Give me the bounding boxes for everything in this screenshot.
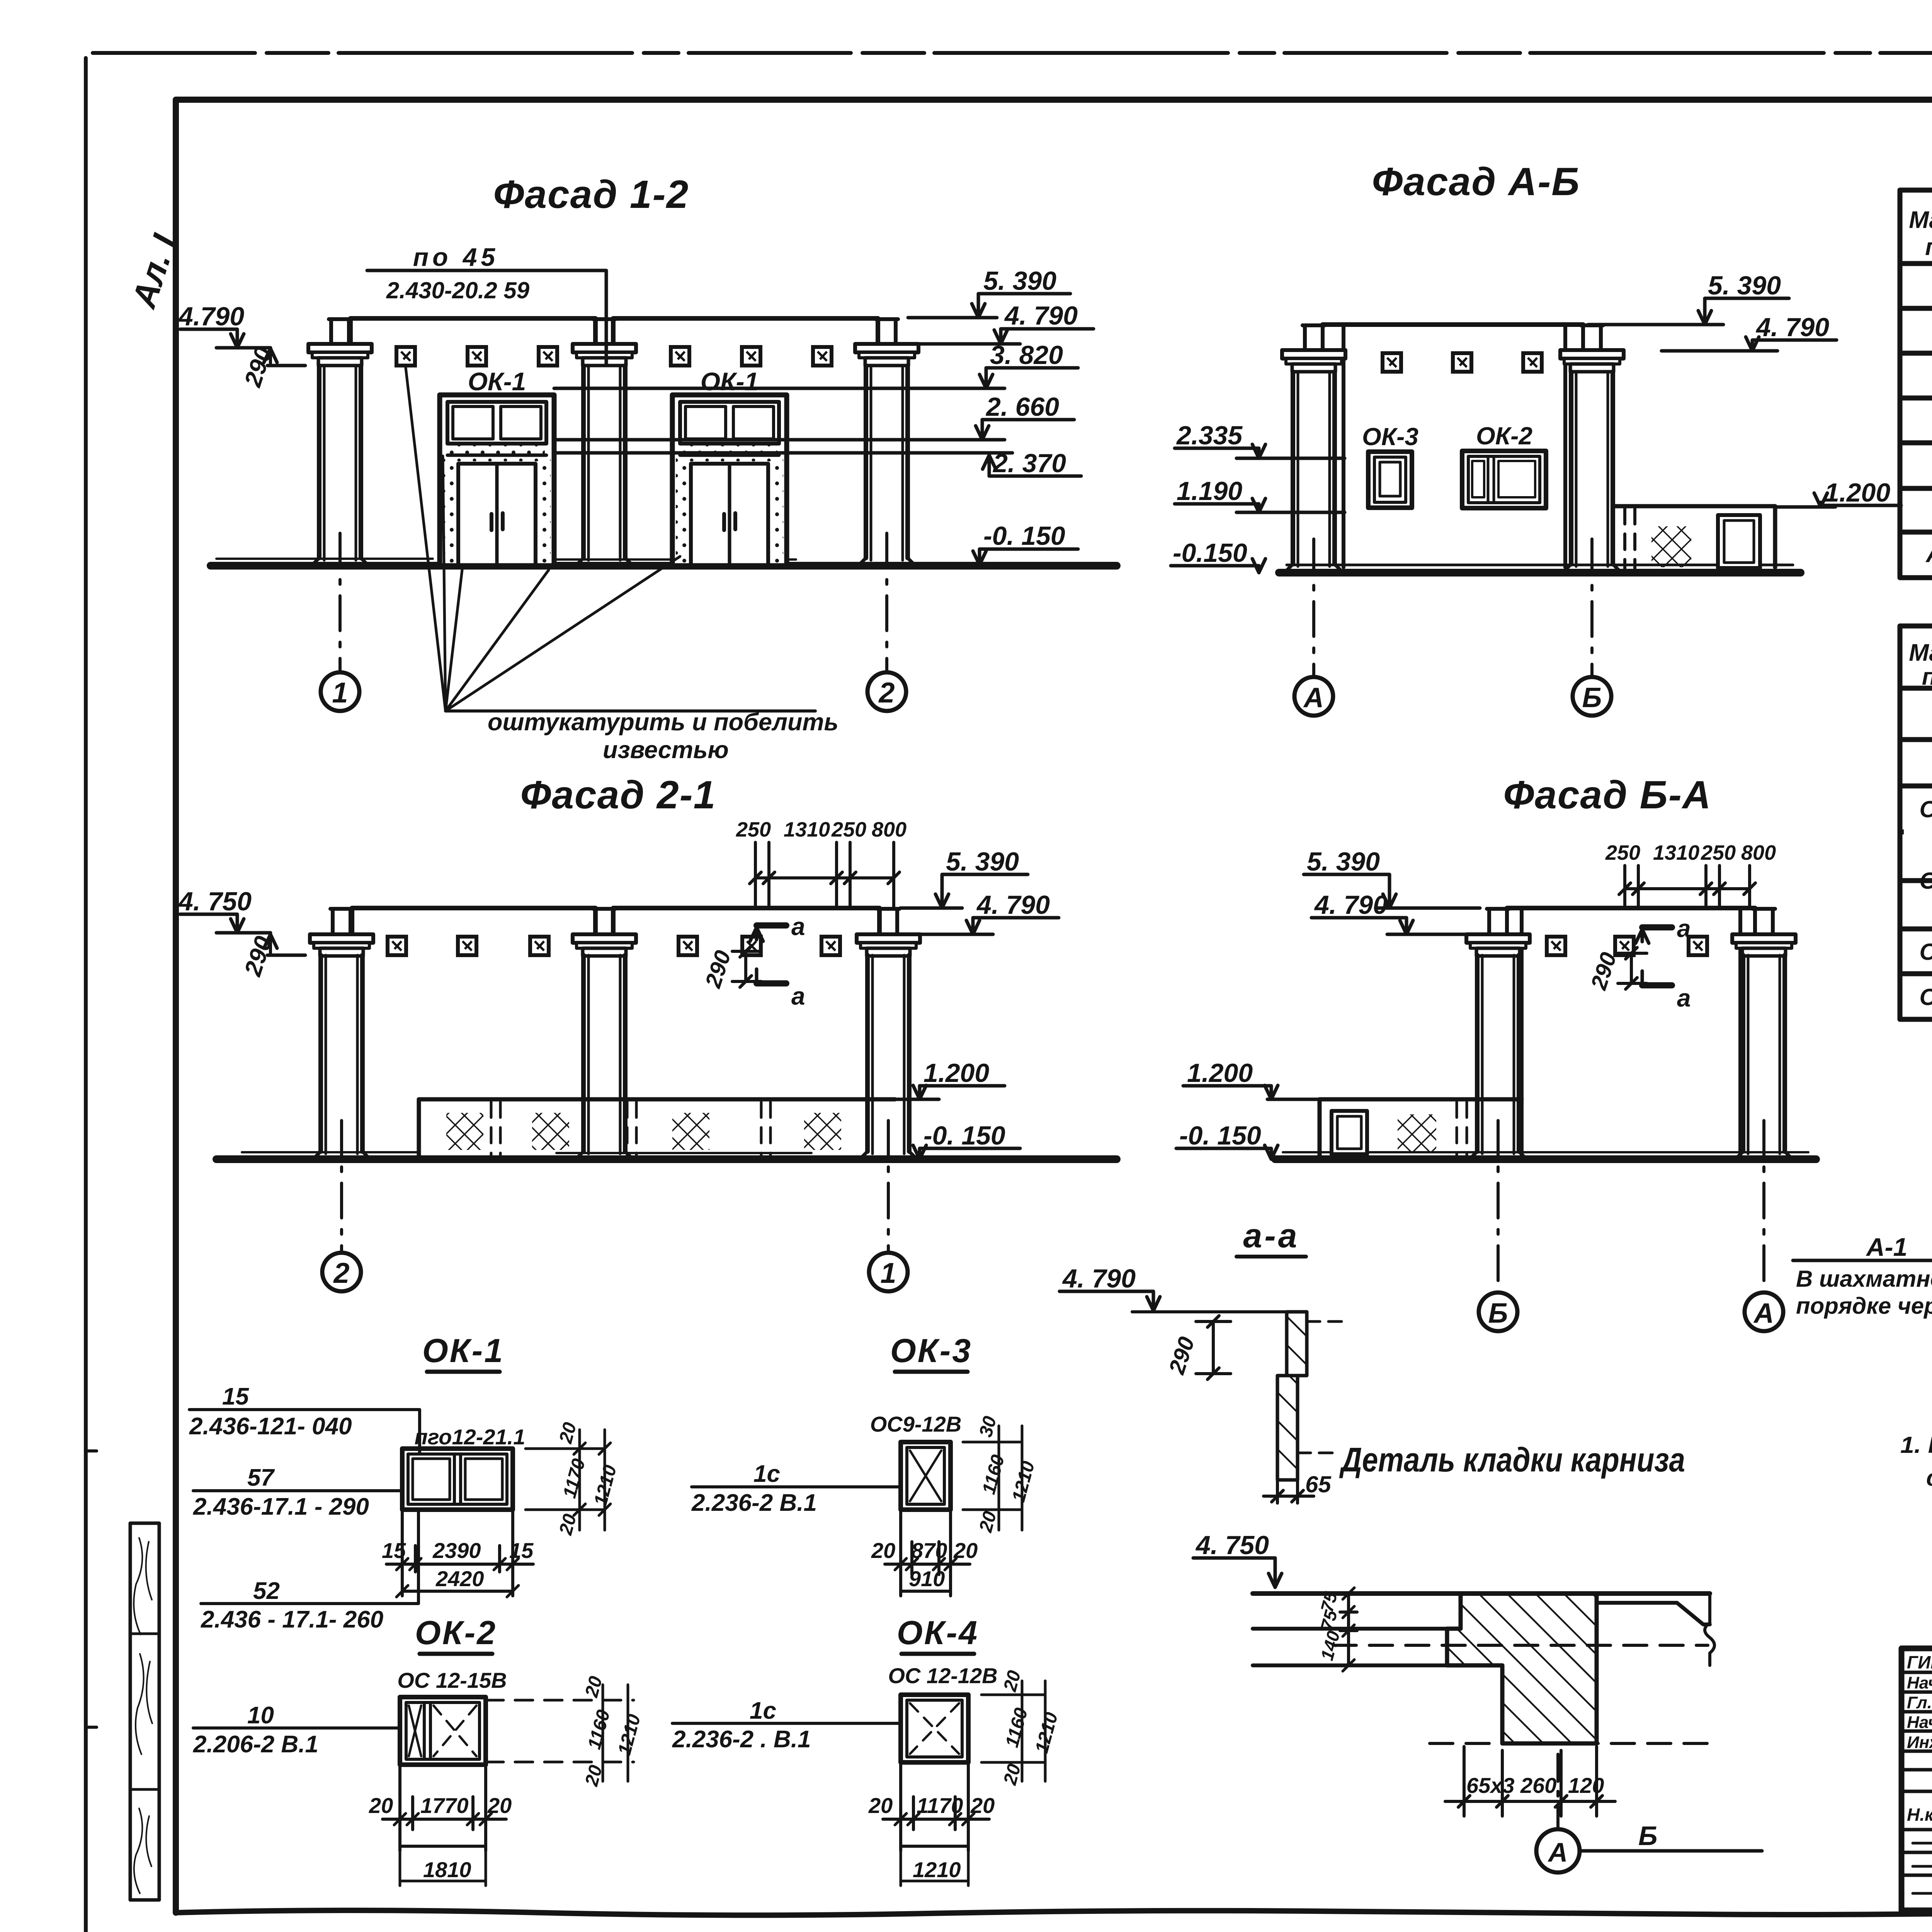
svg-text:Начотд: Начотд (1907, 1673, 1932, 1692)
svg-text:4. 790: 4. 790 (1314, 890, 1388, 920)
svg-text:ОС9-12В: ОС9-12В (870, 1412, 962, 1436)
svg-text:250: 250 (1701, 841, 1736, 864)
OK-2 right dashed leaders (486, 1700, 634, 1762)
290 dim at capital (267, 364, 305, 367)
svg-text:2.236-2 . В.1: 2.236-2 . В.1 (672, 1726, 811, 1753)
grilles (388, 937, 406, 955)
hatched masonry (1447, 1594, 1597, 1743)
svg-text:1170: 1170 (917, 1793, 963, 1818)
svg-text:4. 790: 4. 790 (1755, 313, 1829, 342)
svg-text:ОК-1: ОК-1 (1920, 796, 1932, 822)
svg-text:ОК-2: ОК-2 (415, 1614, 497, 1651)
parapet wall top (350, 318, 878, 344)
svg-text:5. 390: 5. 390 (946, 847, 1019, 876)
svg-text:800: 800 (872, 818, 906, 841)
svg-text:20: 20 (871, 1538, 895, 1563)
svg-text:15: 15 (222, 1383, 249, 1410)
grilles (1547, 937, 1565, 955)
svg-text:Инж.бл: Инж.бл (1907, 1733, 1932, 1752)
svg-text:ОС 12-12В: ОС 12-12В (888, 1663, 997, 1688)
svg-text:-0. 150: -0. 150 (983, 521, 1065, 551)
svg-text:10: 10 (247, 1702, 274, 1729)
svg-text:1770: 1770 (420, 1793, 469, 1818)
cornice profile lines (1253, 1629, 1502, 1665)
OK-3 right dims rotated (963, 1442, 1020, 1510)
svg-text:а: а (1677, 984, 1691, 1012)
svg-text:В шахматном: В шахматном (1796, 1266, 1932, 1292)
pilaster axis 1 (308, 319, 372, 564)
svg-text:поз.: поз. (1922, 663, 1932, 690)
svg-text:ОК-1: ОК-1 (468, 367, 526, 396)
ground line (1279, 569, 1801, 577)
right annex wall (1615, 506, 1775, 567)
svg-text:5. 390: 5. 390 (983, 266, 1056, 296)
section a flags (1642, 924, 1672, 930)
svg-text:910: 910 (909, 1566, 945, 1591)
leader fan to note (406, 368, 680, 711)
svg-text:15: 15 (509, 1538, 534, 1563)
svg-text:-0.150: -0.150 (1173, 538, 1247, 568)
door unit OK-1 (right) (672, 367, 787, 566)
svg-text:-0. 150: -0. 150 (923, 1121, 1005, 1150)
svg-text:ОК-1: ОК-1 (701, 367, 759, 396)
pilaster axis 2 (855, 319, 918, 564)
svg-text:250: 250 (1605, 841, 1640, 864)
svg-text:65: 65 (1305, 1471, 1332, 1497)
svg-text:2.335: 2.335 (1176, 421, 1243, 450)
svg-text:1: 1 (880, 1257, 896, 1289)
svg-text:2.436 - 17.1- 260: 2.436 - 17.1- 260 (201, 1606, 383, 1633)
wall corner edges (1522, 908, 1740, 1155)
svg-text:870: 870 (911, 1538, 947, 1563)
svg-text:Деталь кладки карниза: Деталь кладки карниза (1339, 1440, 1685, 1479)
svg-text:2.236-2 В.1: 2.236-2 В.1 (691, 1490, 817, 1516)
svg-text:20: 20 (487, 1793, 512, 1818)
svg-text:5. 390: 5. 390 (1307, 847, 1380, 876)
svg-text:ОК-3: ОК-3 (890, 1332, 972, 1369)
svg-text:Фасад 2-1: Фасад 2-1 (520, 773, 716, 817)
pilaster axis A (1282, 325, 1345, 570)
svg-text:по 45: по 45 (413, 243, 499, 271)
svg-text:20: 20 (970, 1793, 995, 1818)
svg-text:2.430-20.2 59: 2.430-20.2 59 (386, 277, 530, 303)
svg-text:1.200: 1.200 (1825, 478, 1890, 507)
svg-text:известью: известью (603, 736, 729, 764)
wall strip upper (1287, 1312, 1307, 1376)
svg-text:А-1: А-1 (1866, 1233, 1907, 1261)
svg-text:250: 250 (736, 818, 771, 841)
svg-text:А: А (1548, 1837, 1568, 1867)
roof slab right profile (1597, 1603, 1710, 1624)
svg-text:Гл.арх.: Гл.арх. (1907, 1693, 1932, 1712)
svg-text:ОК-1: ОК-1 (422, 1332, 504, 1369)
svg-text:1с: 1с (753, 1461, 780, 1487)
axis circles (340, 1121, 343, 1252)
svg-text:2420: 2420 (435, 1566, 484, 1591)
pilasters axes 2,c,1 (310, 909, 373, 1158)
svg-text:1с: 1с (750, 1697, 776, 1724)
left vertical stamp strip (86, 1451, 159, 1900)
svg-text:4. 750: 4. 750 (178, 887, 252, 916)
ground line (211, 562, 1117, 570)
svg-text:4. 790: 4. 790 (1004, 301, 1078, 330)
svg-text:а-а: а-а (1243, 1216, 1299, 1255)
parapet (1507, 906, 1755, 910)
svg-text:1310: 1310 (1653, 841, 1699, 864)
svg-text:1210: 1210 (913, 1857, 961, 1882)
svg-text:2.436-121- 040: 2.436-121- 040 (189, 1413, 352, 1440)
svg-text:2. 660: 2. 660 (985, 392, 1059, 422)
svg-text:ОС 12-15В: ОС 12-15В (397, 1668, 507, 1692)
pilaster axis A (1732, 909, 1796, 1158)
pilaster center (573, 319, 636, 564)
svg-text:ОК-4: ОК-4 (1920, 984, 1932, 1010)
axis circle 1 (338, 533, 342, 672)
low wall (419, 1099, 895, 1157)
svg-text:пго12-21.1: пго12-21.1 (415, 1425, 526, 1449)
bottom dims 65x3 260 120 (1464, 1747, 1597, 1816)
svg-text:120: 120 (1568, 1773, 1604, 1798)
svg-text:65х3: 65х3 (1466, 1773, 1515, 1798)
svg-text:-0. 150: -0. 150 (1179, 1121, 1261, 1150)
svg-text:2.206-2 В.1: 2.206-2 В.1 (193, 1731, 318, 1758)
section a flags (757, 922, 786, 929)
svg-text:ОК-4: ОК-4 (897, 1614, 979, 1651)
svg-text:57: 57 (247, 1464, 275, 1491)
left vertical dim 75 75 140 (1347, 1594, 1350, 1665)
svg-text:3. 820: 3. 820 (990, 340, 1063, 370)
ground line (1275, 1155, 1816, 1163)
svg-text:оштукатурить и побелить: оштукатурить и побелить (488, 709, 838, 736)
svg-text:Марка: Марка (1909, 207, 1932, 233)
svg-text:1310: 1310 (784, 818, 830, 841)
door unit OK-1 (left) (440, 367, 554, 566)
svg-text:20: 20 (369, 1793, 393, 1818)
svg-text:2390: 2390 (432, 1538, 481, 1563)
svg-text:20: 20 (868, 1793, 893, 1818)
svg-text:сталью по асбестоцементному: сталью по асбестоцементному картону. (1926, 1465, 1932, 1491)
svg-text:ОК-3: ОК-3 (1362, 423, 1418, 451)
axis circle A (1312, 539, 1315, 677)
svg-text:а: а (791, 913, 805, 940)
break mark right (1705, 1594, 1714, 1665)
svg-text:а: а (1677, 915, 1691, 942)
svg-text:1.200: 1.200 (1187, 1058, 1253, 1088)
vent grilles (1383, 353, 1401, 372)
svg-text:Фасад А-Б: Фасад А-Б (1372, 160, 1580, 204)
svg-text:2: 2 (333, 1257, 349, 1289)
svg-text:15: 15 (382, 1538, 406, 1563)
vent grilles row (396, 347, 415, 366)
svg-text:Фасад Б-А: Фасад Б-А (1503, 773, 1711, 817)
dashes bottom rows (1913, 1842, 1932, 1845)
svg-text:порядке через 600мм: порядке через 600мм (1796, 1293, 1932, 1319)
OK-1 bottom dims (402, 1511, 513, 1596)
svg-text:52: 52 (253, 1578, 280, 1604)
crosshatch patch (1651, 526, 1691, 567)
svg-text:20: 20 (953, 1538, 978, 1563)
parapet (1323, 322, 1583, 327)
svg-text:1810: 1810 (423, 1857, 471, 1882)
OK-3 bottom dims (901, 1510, 951, 1596)
svg-text:2.436-17.1 - 290: 2.436-17.1 - 290 (193, 1493, 369, 1520)
OK-1 right dims rotated (526, 1449, 603, 1510)
svg-text:4. 790: 4. 790 (1062, 1264, 1136, 1293)
pilaster axis B (1560, 325, 1624, 570)
wall corner edges (1344, 325, 1565, 567)
svg-text:ОК-3: ОК-3 (1920, 939, 1932, 965)
svg-text:а: а (791, 982, 805, 1010)
OK-4 bottom dims (901, 1762, 968, 1851)
svg-text:1.200: 1.200 (923, 1058, 989, 1088)
svg-text:1: 1 (332, 677, 348, 709)
svg-text:4. 790: 4. 790 (976, 890, 1050, 920)
svg-text:800: 800 (1741, 841, 1776, 864)
svg-text:1.190: 1.190 (1177, 476, 1242, 506)
290 dim (1196, 1321, 1231, 1374)
wall strip lower (1277, 1376, 1298, 1480)
annex window (1718, 515, 1760, 568)
crosshatch patches (446, 1113, 483, 1150)
svg-text:Н.контр: Н.контр (1907, 1804, 1932, 1825)
svg-text:А-1: А-1 (1925, 540, 1932, 568)
svg-text:ОК-2: ОК-2 (1476, 422, 1532, 450)
svg-text:4. 750: 4. 750 (1195, 1531, 1269, 1560)
axis circles (1497, 1121, 1500, 1291)
axis circle 2 (885, 533, 888, 672)
OK-4 right dims rotated (981, 1695, 1043, 1762)
pilaster axis B (1466, 909, 1530, 1158)
svg-text:250: 250 (831, 818, 866, 841)
svg-text:Марка: Марка (1909, 639, 1932, 666)
svg-text:ОК-2: ОК-2 (1920, 868, 1932, 894)
svg-text:Нач. гр: Нач. гр (1907, 1713, 1932, 1732)
top roof line (1253, 1591, 1710, 1596)
OK-2 bottom dims (400, 1765, 486, 1851)
svg-text:5. 390: 5. 390 (1708, 271, 1781, 300)
svg-text:А: А (1303, 682, 1324, 713)
svg-text:Фасад 1-2: Фасад 1-2 (493, 172, 689, 216)
svg-text:Б: Б (1638, 1821, 1658, 1851)
65 dim at bottom (1264, 1480, 1314, 1503)
svg-text:Б: Б (1582, 682, 1602, 713)
svg-text:4.790: 4.790 (178, 302, 244, 331)
svg-text:поз: поз (1925, 234, 1932, 260)
svg-text:А: А (1753, 1298, 1774, 1329)
svg-text:Б: Б (1488, 1298, 1508, 1329)
parapet (352, 908, 879, 934)
axis circle B (1590, 539, 1594, 677)
axis circle A with B leader (1556, 1754, 1560, 1828)
svg-text:2: 2 (878, 677, 895, 709)
ground line (216, 1155, 1117, 1163)
left annex (1320, 1099, 1522, 1157)
svg-text:260: 260 (1520, 1773, 1556, 1798)
svg-text:1. Полотно дверей поз.2 оби: 1. Полотно дверей поз.2 обить кровельной (1900, 1432, 1932, 1458)
svg-text:ГИП: ГИП (1907, 1652, 1932, 1672)
